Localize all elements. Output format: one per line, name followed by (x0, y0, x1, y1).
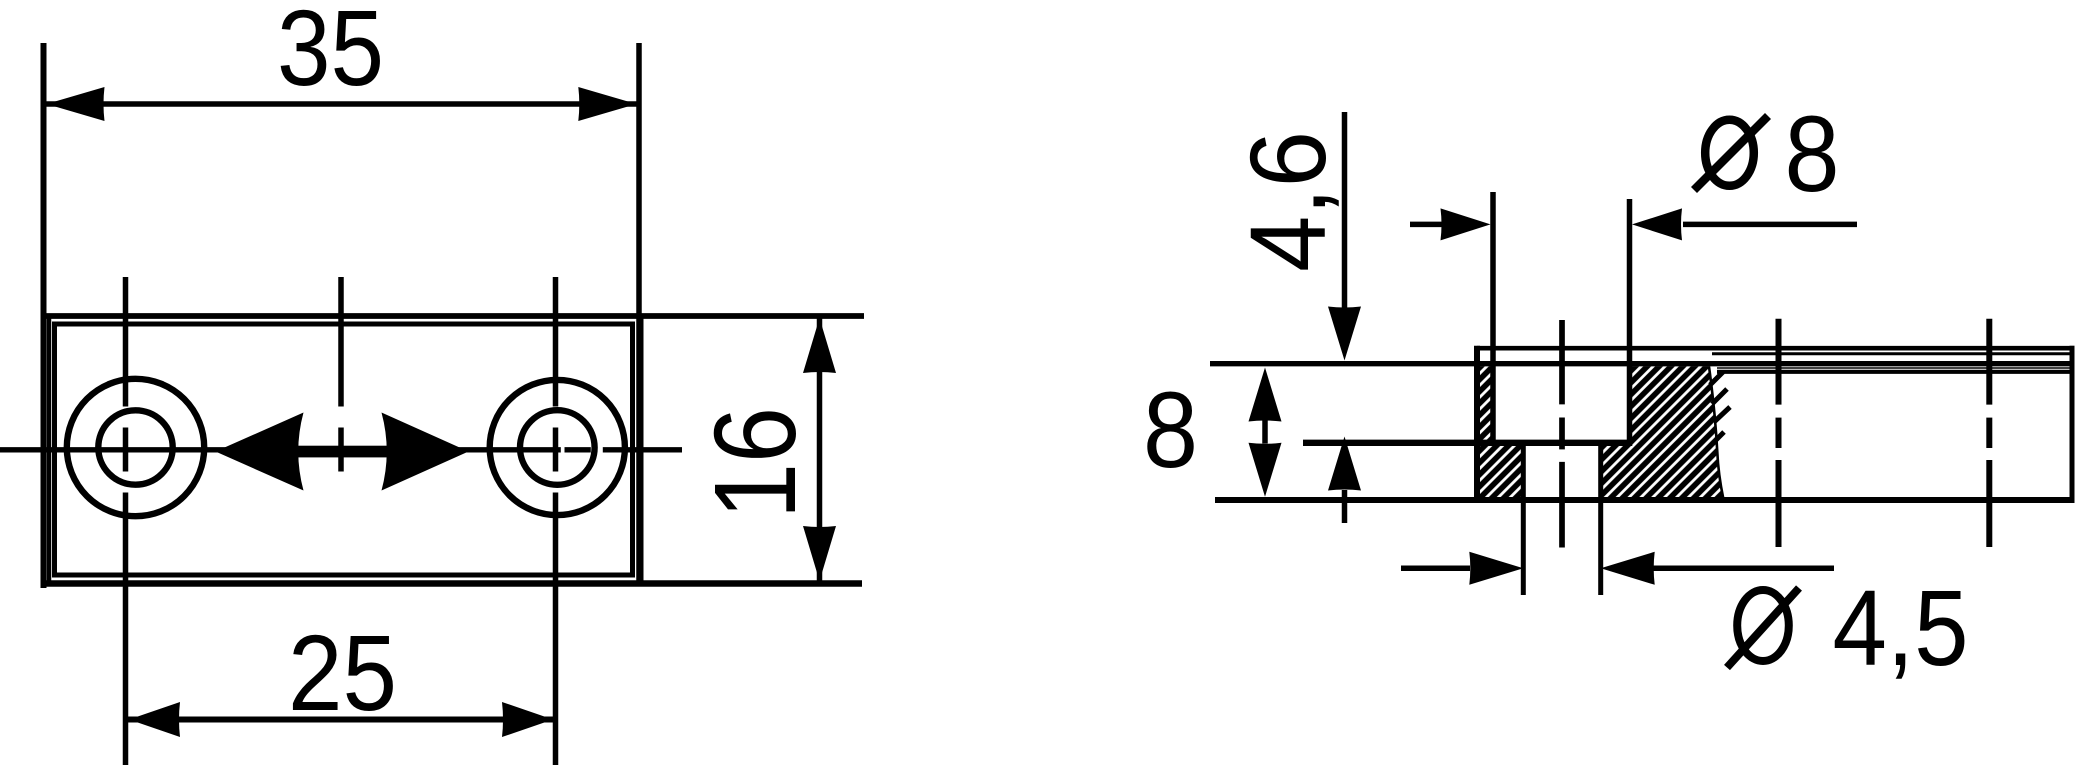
wire extension line left of 35 dimension (41, 43, 47, 588)
svg-text:4,5: 4,5 (1833, 567, 1969, 688)
adjustability double arrow left head (216, 413, 304, 491)
hole left through-hole circle (98, 410, 172, 484)
svg-text:25: 25 (288, 612, 397, 733)
section bottom edge line (8 dim bottom extension) (1215, 497, 2075, 503)
centerline vertical left hole (25 dim extension) (123, 277, 129, 407)
dimension 4,6 lower arrowhead (1328, 437, 1361, 491)
wire extension line right of 35 dimension (636, 43, 642, 586)
section top edge line (1477, 346, 2075, 351)
section right end edge (2070, 346, 2075, 500)
centerline right view first (1776, 319, 1782, 405)
plate inner contour rectangle (55, 324, 633, 575)
svg-text:35: 35 (277, 0, 384, 108)
dimension 35 right arrowhead (578, 87, 636, 121)
section thin foil line right part (1717, 367, 2070, 369)
svg-text:16: 16 (690, 407, 820, 519)
dimension 8 upper arrowhead (1249, 368, 1282, 422)
dimension 16 bottom arrowhead (803, 526, 836, 581)
dimension Ø4,5 right arrow line (1653, 566, 1834, 572)
plate outline left edge (47, 314, 52, 586)
dimension 4,6 upper arrowhead (1328, 307, 1361, 361)
plate outline bottom edge (also 16 dim bottom extension) (47, 580, 863, 587)
freehand break line (1709, 367, 1723, 499)
section recess edge line right part (1717, 370, 2070, 374)
hatch bottom-left block (1477, 443, 1523, 500)
section second top edge line (right part) (1712, 352, 2070, 355)
dimension 16 line (817, 316, 823, 583)
counterbore bottom edge (4,6 dim extension) (1303, 440, 1632, 446)
hole right through-hole circle (520, 410, 595, 485)
dimension 8 lower arrowhead (1249, 443, 1282, 497)
through-hole left wall (Ø4,5 extension) (1521, 441, 1526, 595)
section left end edge (1474, 346, 1480, 503)
hatch left wall strip (1477, 366, 1493, 443)
dimension Ø4,5 left arrowhead (1469, 552, 1523, 585)
hole left counterbore circle (67, 379, 204, 516)
break line hatch teeth (1710, 372, 1730, 440)
dimension Ø4,5 right arrowhead (1601, 552, 1655, 585)
centerline hole axis in section (1559, 320, 1565, 404)
centerline horizontal through holes (0, 447, 561, 452)
through-hole right wall (Ø4,5 extension) (1598, 441, 1603, 595)
dimension Ø8 label diameter symbol (1694, 116, 1768, 190)
dimension 25 line (126, 717, 556, 723)
section surface line (8 dim top extension) (1210, 361, 2070, 366)
dimension Ø8 left arrowhead (1441, 208, 1491, 240)
svg-text:8: 8 (1785, 93, 1840, 214)
svg-text:8: 8 (1143, 369, 1198, 490)
dimension 16 top arrowhead (803, 318, 836, 373)
dimension 35 line (44, 101, 640, 107)
centerline vertical middle (338, 277, 344, 407)
counterbore right wall (and Ø8 extension) (1627, 199, 1633, 443)
dimension 4,6 lower arrow line (1342, 490, 1348, 523)
dimension Ø8 right arrowhead (1632, 208, 1682, 240)
adjustability double arrow right head (382, 413, 469, 491)
hole right counterbore circle (490, 380, 625, 515)
plate outline right edge (639, 314, 644, 586)
counterbore left wall (and Ø8 extension) (1490, 192, 1496, 443)
dimension Ø8 right arrow line (1683, 222, 1857, 228)
adjustability double arrow shaft (295, 446, 390, 458)
plate outline top edge (also 16 dim top extension) (47, 313, 865, 319)
centerline vertical right hole (25 dim extension) (553, 277, 559, 407)
dimension Ø4,5 label diameter symbol (1727, 588, 1799, 668)
dimension 25 left arrowhead (129, 702, 180, 737)
dimension 35 left arrowhead (47, 87, 105, 121)
svg-text:4,6: 4,6 (1227, 131, 1348, 272)
dimension 4,6 upper arrow line (1342, 112, 1348, 312)
dimension Ø4,5 left arrow line (1401, 566, 1470, 572)
dimension 25 right arrowhead (502, 702, 553, 737)
dimension Ø8 left arrow line (1410, 222, 1442, 228)
centerline right view second (1986, 319, 1992, 405)
hatch right block with break edge (1601, 366, 1723, 498)
dimension 8 stem (1262, 420, 1268, 444)
